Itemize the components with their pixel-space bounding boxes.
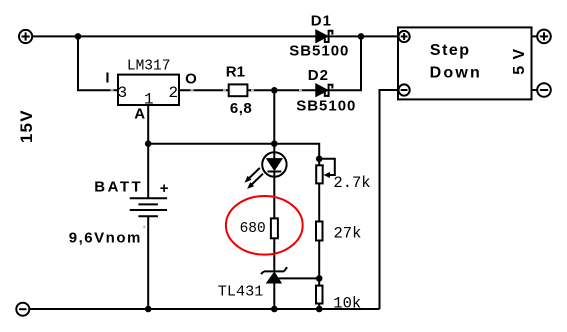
svg-text:9,6Vnom: 9,6Vnom [69,229,142,246]
highlight red ellipse [226,196,303,255]
wire battery minus down to bottom rail [147,216,149,309]
terminal + output right [537,30,551,44]
junction TL431 anode / bottom rail [271,306,278,313]
svg-text:3: 3 [118,84,128,102]
wire input drop from top rail to LM317 input [78,36,118,90]
svg-text:A: A [134,106,145,123]
junction adjust node left [145,140,152,147]
junction battery / bottom rail [145,306,152,313]
svg-text:6,8: 6,8 [230,100,252,117]
resistor R1 body [229,84,248,96]
diode D2 SB5100 [316,84,333,97]
svg-text:SB5100: SB5100 [296,98,356,115]
svg-text:D2: D2 [308,67,329,84]
terminal + input top left [19,30,32,43]
svg-text:2.7k: 2.7k [333,174,370,192]
junction 10k / bottom rail [316,306,323,313]
wire adjust node horizontal to divider [148,144,319,166]
trimmer wiper [319,159,335,178]
wire step-down minus return [380,90,399,309]
battery BATT [130,198,167,216]
svg-text:BATT: BATT [94,179,143,196]
terminal - output right [537,83,551,97]
resistor 680 body [271,218,278,238]
junction trimmer wiper [316,156,323,163]
junction D2 riser / top rail [358,33,365,40]
svg-text:D1: D1 [311,12,332,29]
wire divider middle 2.7k to 27k [318,183,320,221]
resistor 10k body [316,286,323,304]
wire 680 resistor to TL431 cathode [273,238,275,272]
svg-text:R1: R1 [226,64,245,81]
trimmer 2.7k body [316,165,323,183]
svg-text:LM317: LM317 [127,59,171,75]
junction adjust node / LED branch [271,140,278,147]
LED light arrow 2 [247,174,263,189]
regulator U1 LM317 body [118,75,179,105]
pin end marks gray [111,90,303,228]
wire LM317 adjust down to battery [147,105,149,198]
wire module - output stub [532,89,538,91]
svg-text:1: 1 [144,91,154,109]
wire module + output stub [532,35,538,37]
wire divider 27k to 10k [318,241,320,286]
svg-text:TL431: TL431 [218,283,264,301]
junction TL431 ref / divider [316,275,323,282]
svg-text:27k: 27k [334,225,362,243]
junction top rail / LM317 input [75,33,82,40]
wire TL431 reference to divider node [276,277,319,279]
svg-text:I: I [105,70,109,87]
wire LM317 output to D2 anode and to riser [179,89,362,91]
LED [262,152,286,176]
wire bottom rail [29,308,379,310]
svg-text:Down: Down [430,65,482,82]
wire 10k to bottom rail [318,304,320,310]
LED light arrow 1 [245,168,260,183]
svg-text:5 V: 5 V [511,48,528,75]
svg-text:680: 680 [240,221,266,237]
terminal - input bottom left [16,303,29,316]
svg-text:O: O [185,70,197,87]
wire D2 cathode riser to top rail [360,36,362,90]
svg-text:+: + [160,180,169,197]
svg-text:15V: 15V [17,109,36,143]
module terminal + left [399,31,410,42]
wire TL431 anode to bottom rail [273,283,275,309]
wire top rail from + terminal to Step Down [32,35,398,37]
wire LED branch vertical [273,90,275,152]
resistor 27k body [316,222,323,241]
svg-text:2: 2 [169,84,179,102]
svg-text:Step: Step [430,42,471,59]
module terminal - left [399,84,410,95]
junction R1 out / LED branch [271,87,278,94]
svg-text:SB5100: SB5100 [289,42,349,59]
wire LED cathode to 680 resistor [273,177,275,219]
svg-text:10k: 10k [333,294,361,312]
shunt regulator TL431 [261,267,287,283]
diode D1 SB5100 [316,30,333,43]
converter module Step Down body [398,27,532,99]
